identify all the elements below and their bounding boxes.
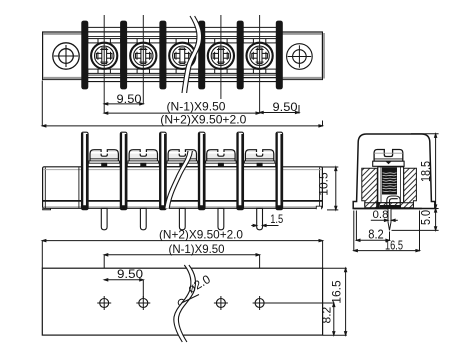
solder pin 1 side view bbox=[101, 208, 107, 229]
svg-text:0.8: 0.8 bbox=[373, 209, 389, 221]
terminal clamp plates cell 3 bbox=[166, 39, 199, 74]
side view screw head S5 bbox=[244, 150, 276, 167]
terminal clamp plates cell 2 bbox=[127, 39, 160, 74]
section screw threaded shank bbox=[382, 168, 397, 195]
barrier wall 1 side view bbox=[82, 132, 89, 210]
break line view3 bbox=[174, 265, 196, 342]
leader from right hole bbox=[260, 302, 334, 304]
pin hole 2 bottom view bbox=[136, 296, 150, 310]
svg-text:9.50: 9.50 bbox=[117, 92, 142, 106]
barrier wall 5 side view bbox=[237, 132, 244, 210]
section solder pin bbox=[388, 209, 391, 231]
pin hole 3 bottom view bbox=[214, 296, 228, 310]
svg-text:5.0: 5.0 bbox=[418, 210, 433, 225]
section hatched left wall bbox=[362, 168, 378, 206]
dimension 1.5 pin width bbox=[251, 224, 278, 226]
hole diameter label 2.0 with leader bbox=[182, 295, 200, 304]
section clamp cage bbox=[378, 167, 404, 206]
svg-text:(N+2)X9.50+2.0: (N+2)X9.50+2.0 bbox=[160, 113, 246, 127]
svg-text:1.5: 1.5 bbox=[270, 212, 283, 226]
dimension 9.50 hole pitch bbox=[104, 279, 143, 299]
section hatched bottom strip bbox=[365, 203, 414, 208]
dimension 0.8 pin width bbox=[371, 219, 398, 221]
left mounting hole bbox=[53, 43, 79, 69]
solder pin 2 side view bbox=[140, 208, 146, 229]
screw S3 phillips head bbox=[169, 43, 195, 69]
svg-text:(N-1)X9.50: (N-1)X9.50 bbox=[169, 242, 225, 256]
solder pin 5 side view bbox=[257, 208, 263, 229]
side view screw head S3 bbox=[166, 150, 198, 167]
screw S4 phillips head bbox=[208, 43, 234, 69]
partial hole at break bbox=[178, 299, 185, 306]
dimension 16.5 housing width bbox=[354, 211, 420, 252]
svg-text:10.5: 10.5 bbox=[317, 172, 331, 196]
barrier wall 2 side view bbox=[120, 132, 127, 210]
section housing outline bbox=[353, 134, 435, 209]
view1 right mounting ear bbox=[279, 32, 324, 80]
dimension 5.0 pin length bbox=[392, 209, 439, 231]
pin hole 4 bottom view bbox=[253, 296, 267, 310]
side view body bbox=[43, 167, 323, 210]
barrier wall 6 side view bbox=[276, 132, 283, 210]
svg-text:8.2: 8.2 bbox=[368, 226, 384, 241]
dimension 9.50 screw pitch bbox=[104, 103, 143, 105]
side view screw head S4 bbox=[205, 150, 237, 167]
screw S5 phillips head bbox=[247, 43, 273, 69]
view1 left mounting ear bbox=[43, 32, 86, 80]
dimension (N-1)X9.50 bbox=[104, 112, 259, 114]
svg-text:18.5: 18.5 bbox=[418, 161, 433, 182]
metal rail lines across cells bbox=[85, 27, 279, 81]
dimension 10.5 body height bbox=[321, 167, 339, 210]
svg-text:8.2: 8.2 bbox=[319, 306, 333, 323]
svg-text:16.5: 16.5 bbox=[330, 280, 344, 304]
dimension 9.50 right end bbox=[260, 105, 299, 114]
dimension 8.2 pin offset bbox=[356, 211, 389, 242]
right mounting hole bbox=[287, 44, 313, 70]
screw S2 phillips head bbox=[130, 43, 156, 69]
dimension 18.5 housing height bbox=[411, 134, 439, 209]
barrier wall 3 front view bbox=[159, 21, 166, 90]
side view screw head S1 bbox=[88, 150, 120, 167]
break line view2 bbox=[165, 151, 193, 209]
pin hole 1 bottom view bbox=[97, 296, 111, 310]
barrier wall 4 front view bbox=[198, 21, 205, 90]
barrier wall 5 front view bbox=[237, 21, 244, 90]
barrier wall 3 side view bbox=[160, 132, 167, 210]
section wire clamp hook bbox=[387, 196, 400, 206]
barrier wall 6 front view bbox=[276, 21, 283, 90]
break line view1 bbox=[182, 16, 202, 93]
dimension (N+2)X9.50+2.0 overall length bbox=[42, 81, 322, 128]
section hatched right wall bbox=[404, 168, 417, 206]
screw centerlines extension lines bbox=[104, 15, 259, 113]
barrier wall 4 side view bbox=[198, 132, 205, 210]
screw S1 phillips head bbox=[91, 43, 117, 69]
section screw head bbox=[373, 150, 404, 167]
terminal clamp plates cell 5 bbox=[243, 39, 276, 74]
barrier wall 2 front view bbox=[120, 21, 127, 90]
barrier wall 1 front view bbox=[81, 21, 88, 90]
terminal clamp plates cell 4 bbox=[205, 39, 238, 74]
dimension (N+2)X9.50+2.0 bottom view bbox=[42, 240, 322, 269]
svg-text:9.50: 9.50 bbox=[273, 100, 298, 114]
dimension 16.5 body width bbox=[323, 268, 347, 335]
solder pin 4 side view bbox=[218, 208, 224, 229]
dimension 8.2 hole offset bbox=[333, 303, 335, 335]
svg-text:9.50: 9.50 bbox=[117, 267, 143, 281]
terminal clamp plates cell 1 bbox=[88, 39, 121, 74]
solder pin 3 side view bbox=[179, 208, 185, 229]
side view screw head S2 bbox=[127, 150, 159, 167]
svg-text:(N+2)X9.50+2.0: (N+2)X9.50+2.0 bbox=[159, 227, 243, 241]
bottom view body outline bbox=[42, 268, 322, 335]
dimension (N-1)X9.50 bottom view bbox=[104, 254, 259, 299]
section bottom dark bits bbox=[376, 202, 401, 208]
svg-text:16.5: 16.5 bbox=[385, 237, 403, 252]
